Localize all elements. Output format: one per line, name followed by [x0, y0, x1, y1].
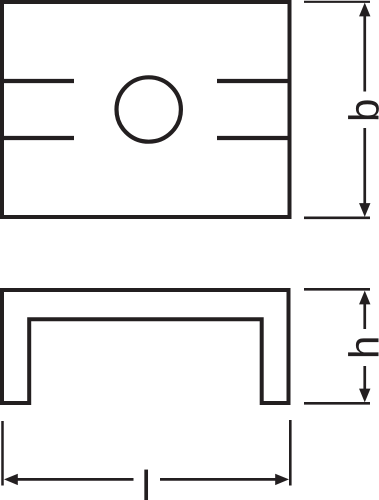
left upper flange line — [0, 79, 74, 83]
dimension b line upper segment — [363, 14, 366, 92]
dimension h line upper segment — [363, 302, 366, 329]
dimension h top tick — [304, 288, 370, 291]
mounting hole circle — [117, 77, 181, 141]
dimension h line lower segment — [363, 366, 366, 390]
dimension b top tick — [304, 1, 370, 3]
dimension b arrow down — [359, 203, 370, 217]
label b — [348, 100, 379, 119]
dimension h bottom tick — [304, 402, 370, 405]
dimension b bottom tick — [304, 217, 370, 220]
bottom view clip profile — [2, 290, 289, 403]
label l — [144, 470, 148, 500]
dimension l left extension line — [1, 421, 4, 486]
dimension l line left segment — [16, 478, 134, 481]
dimension b arrow up — [359, 3, 370, 17]
label h — [348, 338, 378, 356]
right upper flange line — [217, 79, 290, 83]
dimension h arrow up — [359, 291, 370, 305]
dimension l arrow right — [275, 474, 289, 485]
dimension l arrow left — [4, 474, 18, 485]
dimension b line lower segment — [363, 128, 366, 204]
right lower flange line — [217, 136, 290, 140]
dimension l line right segment — [160, 478, 276, 481]
dimension h arrow down — [359, 389, 370, 403]
dimension l right extension line — [289, 420, 292, 486]
top view rectangle — [2, 2, 290, 217]
left lower flange line — [0, 136, 74, 140]
